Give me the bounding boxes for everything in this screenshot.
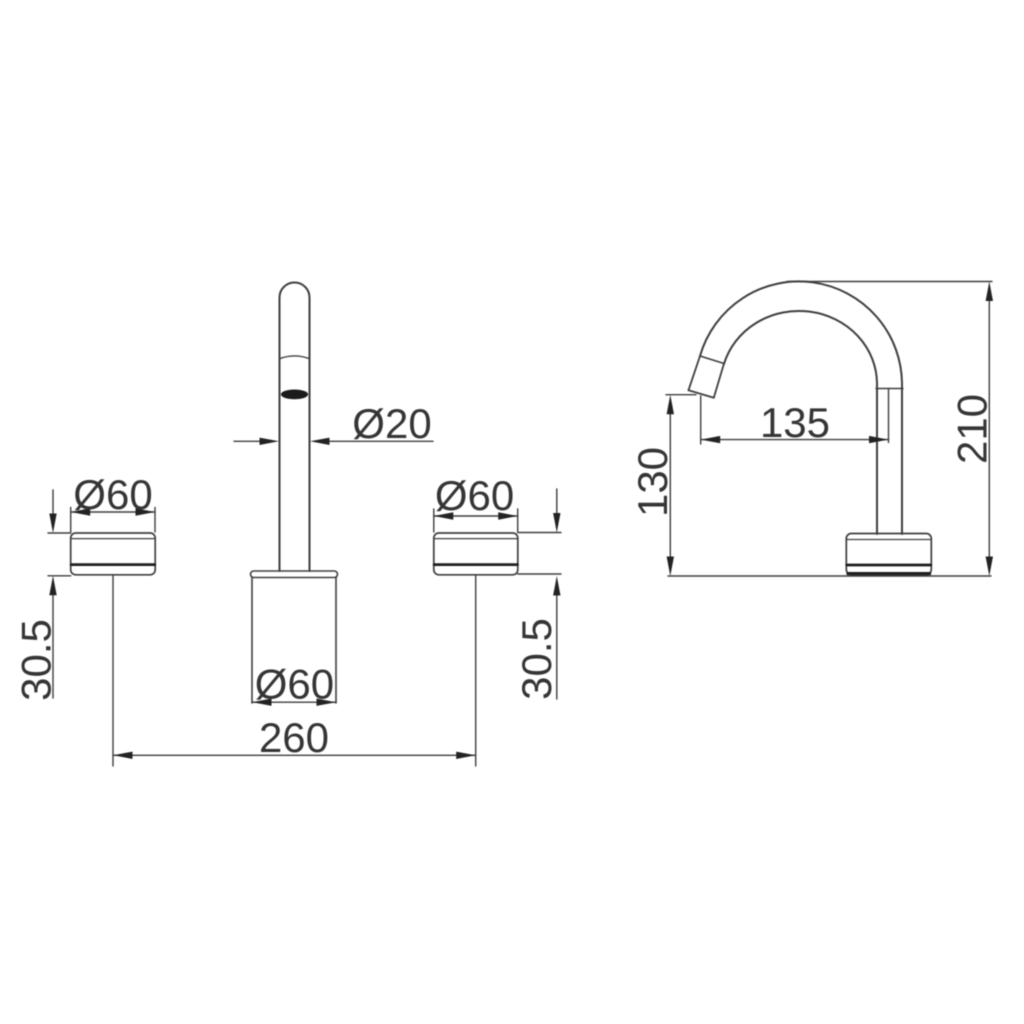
left Ø60 right arrow	[136, 508, 156, 515]
135 dimension line	[701, 439, 889, 441]
spout base flange	[251, 571, 338, 578]
130 bottom arrow (down)	[667, 557, 674, 577]
dimension Ø20 left arrow	[260, 438, 280, 445]
side base cap line	[847, 539, 931, 541]
right 30.5 upper extension line	[518, 532, 561, 534]
svg-text:Ø60: Ø60	[73, 471, 152, 518]
gooseneck outer curve (side view)	[700, 281, 902, 534]
210 top extension line	[787, 281, 992, 283]
right 30.5 lower arrow (up)	[553, 576, 560, 596]
130 top arrow (up)	[667, 395, 674, 415]
riser joint line	[876, 388, 903, 390]
260 left arrow	[113, 752, 133, 759]
210 dimension line	[988, 297, 990, 560]
nozzle left wall	[689, 356, 701, 390]
svg-text:30.5: 30.5	[513, 618, 560, 700]
135 left extension line	[700, 396, 702, 444]
260 right arrow	[456, 752, 476, 759]
left 30.5 lower line	[52, 591, 54, 698]
bottom Ø60 dimension line	[252, 701, 336, 703]
left Ø60 extension line left	[71, 508, 155, 533]
right 30.5 upper line	[556, 489, 558, 517]
nozzle right wall	[714, 364, 724, 398]
left handle cap line	[71, 538, 155, 540]
135 right arrow	[869, 436, 889, 443]
bottom Ø60 left arrow	[252, 699, 272, 706]
svg-text:260: 260	[259, 714, 329, 761]
spout joint line	[280, 356, 310, 359]
deck line	[668, 575, 991, 577]
210 top arrow (up)	[986, 282, 993, 302]
aerator outlet (filled ellipse)	[281, 390, 308, 400]
svg-text:Ø20: Ø20	[352, 400, 431, 447]
left handle ring (thick)	[71, 563, 155, 566]
right 30.5 lower extension line	[518, 573, 561, 575]
side base bottom (thick)	[848, 572, 930, 575]
right handle body	[434, 533, 518, 575]
riser centerline extension	[888, 389, 890, 443]
dimension Ø20 left leader	[234, 440, 263, 442]
right 30.5 lower line	[556, 591, 558, 699]
svg-text:Ø60: Ø60	[435, 472, 514, 519]
right handle ring (thick)	[434, 563, 517, 566]
side base body	[846, 534, 931, 575]
right Ø60 extension lines	[434, 509, 518, 532]
210 bottom arrow (down)	[986, 557, 993, 577]
left 30.5 upper extension line	[48, 532, 71, 534]
gooseneck inner curve (side view)	[724, 311, 877, 534]
right handle cap line	[434, 538, 518, 540]
spout tube (front view)	[280, 283, 310, 572]
right Ø60 dimension line	[434, 515, 518, 517]
left Ø60 left arrow	[71, 508, 91, 515]
left handle body	[71, 533, 156, 575]
135 left arrow	[701, 436, 721, 443]
260 right leader	[475, 576, 477, 766]
left 30.5 upper line	[52, 490, 54, 518]
spout shank cylinder right wall	[335, 578, 337, 704]
right Ø60 left arrow	[434, 512, 454, 519]
dimension Ø20 right arrow	[310, 438, 330, 445]
130 top extension line	[666, 394, 696, 396]
nozzle joint line	[700, 356, 724, 364]
side base ring (thick)	[847, 564, 931, 567]
svg-text:Ø60: Ø60	[255, 661, 334, 708]
svg-text:135: 135	[760, 399, 830, 446]
right 30.5 upper arrow (down)	[553, 513, 560, 533]
right Ø60 right arrow	[498, 512, 518, 519]
svg-text:130: 130	[629, 447, 676, 517]
nozzle tip face	[689, 390, 714, 398]
svg-text:210: 210	[949, 394, 996, 464]
130 dimension line	[669, 410, 671, 560]
spout shank cylinder left wall	[251, 578, 253, 704]
left Ø60 dimension line	[71, 511, 155, 513]
bottom Ø60 right arrow	[317, 699, 337, 706]
svg-text:30.5: 30.5	[13, 619, 60, 701]
dimension Ø20 right leader	[326, 440, 433, 442]
260 left leader	[112, 576, 114, 766]
left 30.5 lower arrow (up)	[49, 576, 56, 596]
left 30.5 lower extension line	[48, 575, 71, 577]
260 dimension line	[113, 754, 476, 756]
left 30.5 upper arrow (down)	[49, 514, 56, 534]
